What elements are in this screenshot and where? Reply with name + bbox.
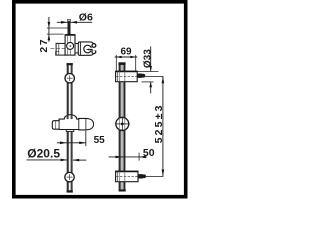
dimension line Ø33 upper [150,47,152,72]
leader Ø20.5 left [27,159,68,161]
arrow Ø33 bottom (points up) [149,82,152,87]
rod (bar) [119,63,126,192]
dimension 27: dim line [48,17,50,42]
extension line Ø33 top [137,71,158,73]
fork holder body [78,42,93,55]
dimension 55: dim line [57,142,86,144]
centerline to 525 dim (top) [145,75,164,77]
arrow Ø20.5 right [73,159,79,162]
fork hole [84,45,92,53]
border frame [14,2,186,197]
upper ball [65,74,74,83]
dimension line 50 [109,156,147,158]
pin Ø6 (dark stub) [68,19,71,34]
slider body (side view) [52,115,93,130]
fork holder neck [75,44,79,53]
svg-text:55: 55 [94,135,106,146]
arrow 50 at rod [116,156,122,159]
arrow 55 at rod [60,142,67,145]
rod top cap [119,62,126,65]
dimension line Ø6 [57,21,92,23]
svg-text:Ø33: Ø33 [142,49,153,68]
extension line 69 left [115,55,117,71]
dimension line 69 [115,56,138,58]
arrow 55 at extension [79,142,86,145]
svg-text:Ø20.5: Ø20.5 [27,147,60,161]
svg-text:27: 27 [38,38,50,53]
arrow 27 bottom (points up) [48,35,51,41]
wall plate of clamp [56,43,66,55]
screw circle on clamp [67,42,74,49]
rod lines through dome [67,115,73,119]
arrow Ø6 left [61,21,67,24]
slider knob (front view) [115,117,130,132]
bottom wall bracket [116,171,138,182]
arrow 69 left [116,56,121,59]
leader Ø20.5 right [73,159,86,161]
arrow 69 right [130,56,135,59]
fork prong hook bottom [92,50,96,54]
centerline to 525 dim (bottom) [145,175,163,177]
fork slot channel [88,48,98,51]
arrow 525 bottom (points down) [162,170,165,177]
slider division lines [58,119,60,129]
extension line 69 right [135,55,137,71]
fork prong hook top [92,44,96,48]
top wall bracket [116,71,138,82]
extension line Ø33 bottom [142,81,154,83]
arrow 50 at extension (points left) [139,156,145,159]
extension line 55 [85,131,87,146]
arrow Ø33 top (points down) [149,66,152,71]
lower ball [65,172,74,181]
bottom bracket knob [138,174,146,178]
clamp body [65,35,75,55]
arrow Ø20.5 left [61,159,67,162]
top bracket knob [137,74,145,78]
extension line 27 lower [47,33,64,35]
rod bottom cap [67,190,73,192]
rod top cap [67,63,73,65]
rod bottom cap [119,189,126,191]
extension line 27 upper [47,27,68,29]
fork inner left bar [79,42,81,55]
dimension line Ø33 lower [150,82,152,93]
slider bottom collar [66,130,74,132]
svg-text:69: 69 [121,47,133,58]
svg-text:525±3: 525±3 [153,103,165,143]
arrow Ø6 right [71,21,77,24]
dimension line 525±3 [162,76,164,176]
rod (bar) [67,63,73,192]
svg-text:Ø6: Ø6 [79,12,93,24]
arrow 27 top (points down) [48,22,51,28]
arrow 525 top (points up) [162,77,165,84]
centerline through clamp [50,48,66,50]
extension line 50 [138,153,140,161]
slot bar in fork hole [86,49,90,51]
